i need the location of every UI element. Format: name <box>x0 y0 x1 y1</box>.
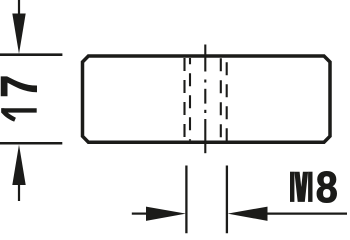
centerline dot 1 <box>204 80 206 83</box>
svg-text:7: 7 <box>0 75 48 98</box>
thread label M: left stem <box>290 172 294 202</box>
M8 arrow tail left <box>132 213 147 215</box>
svg-text:8: 8 <box>316 162 338 211</box>
M8 arrowhead pointing left <box>228 207 268 221</box>
centerline dash 2 <box>204 89 206 104</box>
dimension label 17: digit 1 stem (rotated) <box>1 108 36 112</box>
M8 arrowhead pointing right <box>146 207 186 221</box>
M8 extension line right <box>226 166 228 234</box>
part body outline (side view of cylindrical spacer, chamfered edges) <box>83 56 331 142</box>
M8 arrow tail right <box>267 213 347 215</box>
thread major diameter hidden line, left <box>183 58 185 140</box>
M8 extension line left <box>185 166 187 234</box>
centerline dot 2 <box>204 110 206 113</box>
dimension arrowhead pointing up <box>12 145 25 185</box>
thread label M: right stem <box>308 172 312 202</box>
centerline dash 3 (runs through bottom edge) <box>204 119 206 153</box>
thread minor diameter hidden line, right <box>220 58 222 140</box>
extension tick bottom of 17 dimension <box>0 142 62 145</box>
dimension arrowhead pointing down <box>12 14 25 54</box>
thread label M: middle V <box>294 172 308 202</box>
thread major diameter hidden line, right <box>226 58 228 142</box>
thread minor diameter hidden line, left <box>189 58 191 140</box>
extension tick top of 17 dimension <box>0 53 62 56</box>
dimension label 17: digit 1 flag (rotated) <box>1 108 16 121</box>
dimension arrow tail top <box>18 0 20 15</box>
centerline segment 1 <box>204 45 206 72</box>
dimension arrow tail bottom <box>18 184 20 201</box>
